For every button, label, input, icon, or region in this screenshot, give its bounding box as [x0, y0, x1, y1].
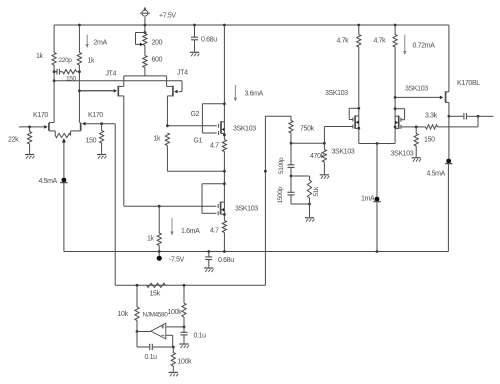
svg-text:NJM4580: NJM4580 — [143, 312, 169, 319]
svg-text:0.72mA: 0.72mA — [413, 43, 436, 50]
svg-text:3SK103: 3SK103 — [233, 126, 256, 133]
svg-text:470k: 470k — [310, 153, 325, 160]
svg-text:4.7: 4.7 — [210, 228, 219, 235]
svg-text:K170BL: K170BL — [457, 80, 480, 87]
svg-text:150: 150 — [424, 137, 435, 144]
svg-text:3.3k: 3.3k — [425, 113, 438, 120]
svg-text:3SK103: 3SK103 — [332, 149, 355, 156]
svg-text:4.5mA: 4.5mA — [39, 178, 58, 185]
svg-text:22k: 22k — [8, 137, 19, 144]
svg-text:4.7k: 4.7k — [337, 38, 350, 45]
svg-text:JT4: JT4 — [106, 71, 117, 78]
svg-text:0.1u: 0.1u — [145, 354, 158, 361]
svg-text:0.1u: 0.1u — [194, 333, 207, 340]
svg-text:220p: 220p — [59, 57, 73, 64]
svg-text:2mA: 2mA — [94, 40, 108, 47]
svg-text:100k: 100k — [168, 309, 183, 316]
svg-text:4.7k: 4.7k — [374, 38, 387, 45]
svg-text:JT4: JT4 — [177, 70, 188, 77]
svg-text:600: 600 — [152, 57, 163, 64]
svg-text:1k: 1k — [147, 236, 155, 243]
svg-text:150: 150 — [66, 76, 77, 83]
svg-text:3SK103: 3SK103 — [405, 86, 428, 93]
svg-text:K170: K170 — [88, 112, 103, 119]
svg-text:0.68u: 0.68u — [201, 37, 217, 44]
svg-text:1k: 1k — [154, 136, 162, 143]
svg-text:1500p: 1500p — [277, 186, 284, 203]
svg-text:4.5mA: 4.5mA — [427, 171, 446, 178]
svg-text:10k: 10k — [118, 311, 129, 318]
svg-text:K170: K170 — [33, 112, 48, 119]
svg-text:3SK103: 3SK103 — [325, 90, 348, 97]
svg-text:5100p: 5100p — [278, 157, 285, 174]
svg-text:1k: 1k — [36, 53, 44, 60]
svg-text:-7.5V: -7.5V — [169, 257, 185, 264]
svg-text:0.68u: 0.68u — [218, 257, 234, 264]
svg-text:3.6mA: 3.6mA — [245, 91, 264, 98]
svg-text:+7.5V: +7.5V — [159, 13, 176, 20]
svg-text:51k: 51k — [313, 186, 320, 197]
svg-text:150: 150 — [86, 138, 97, 145]
svg-text:200: 200 — [152, 40, 163, 47]
svg-text:3SK103: 3SK103 — [391, 151, 414, 158]
svg-text:100k: 100k — [178, 359, 193, 366]
svg-text:G2: G2 — [191, 111, 200, 118]
svg-text:1k: 1k — [88, 58, 96, 65]
svg-text:750k: 750k — [300, 126, 315, 133]
svg-text:4.7: 4.7 — [210, 143, 219, 150]
svg-text:3SK103: 3SK103 — [235, 206, 258, 213]
svg-text:15k: 15k — [150, 291, 161, 298]
svg-text:1.6mA: 1.6mA — [181, 228, 200, 235]
svg-text:1mA: 1mA — [361, 196, 375, 203]
svg-text:G1: G1 — [194, 138, 203, 145]
